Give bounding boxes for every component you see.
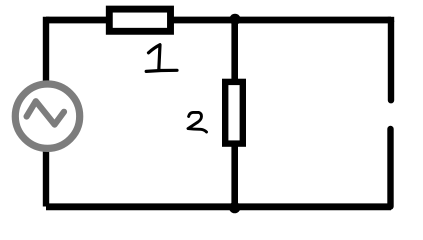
- wire top (node A rail): [46, 17, 391, 24]
- resistor 2 (vertical box): [225, 82, 243, 144]
- junction top: [229, 14, 240, 25]
- ac source sine wave: [27, 101, 64, 124]
- wire middle vertical: [231, 19, 238, 207]
- wire left vertical: [43, 17, 49, 207]
- wire bottom (node B rail): [46, 203, 391, 210]
- label 1 (value of resistor 1): [146, 45, 177, 72]
- wire right lower segment: [387, 129, 393, 207]
- label 2 (value of resistor 2): [188, 112, 207, 132]
- wire right top corner fill: [388, 17, 394, 22]
- ac source circle: [15, 84, 79, 148]
- wire right upper segment: [388, 22, 394, 101]
- resistor 1 (horizontal box): [109, 9, 170, 31]
- junction bottom: [229, 202, 240, 213]
